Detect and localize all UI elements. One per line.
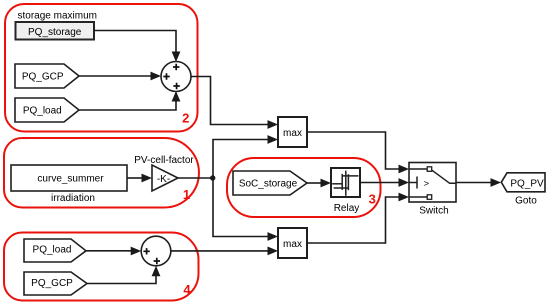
- svg-text:4: 4: [183, 282, 191, 297]
- svg-text:PV-cell-factor: PV-cell-factor: [134, 155, 194, 166]
- svg-text:2: 2: [182, 110, 189, 125]
- svg-text:max: max: [283, 128, 302, 139]
- svg-text:Switch: Switch: [419, 205, 448, 216]
- svg-text:PQ_GCP: PQ_GCP: [22, 71, 64, 82]
- svg-text:curve_summer: curve_summer: [37, 173, 104, 184]
- svg-text:PQ_storage: PQ_storage: [28, 27, 82, 38]
- svg-text:PQ_load: PQ_load: [23, 105, 62, 116]
- svg-text:PQ_GCP: PQ_GCP: [31, 278, 73, 289]
- svg-text:1: 1: [183, 187, 190, 202]
- svg-text:Goto: Goto: [515, 195, 537, 206]
- svg-text:PQ_load: PQ_load: [33, 245, 72, 256]
- svg-text:-K-: -K-: [157, 174, 170, 185]
- svg-text:max: max: [283, 239, 302, 250]
- svg-text:SoC_storage: SoC_storage: [239, 179, 298, 190]
- svg-text:Relay: Relay: [334, 203, 360, 214]
- svg-text:>: >: [424, 178, 430, 189]
- svg-text:storage maximum: storage maximum: [18, 11, 97, 22]
- svg-text:PQ_PV: PQ_PV: [510, 178, 544, 189]
- svg-text:3: 3: [369, 191, 376, 206]
- svg-text:irradiation: irradiation: [51, 193, 95, 204]
